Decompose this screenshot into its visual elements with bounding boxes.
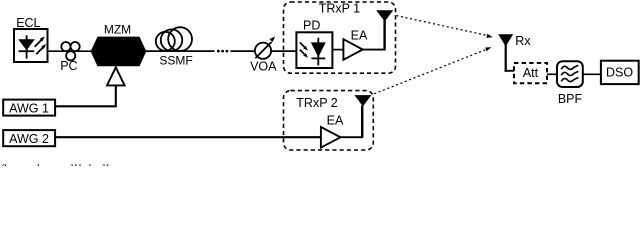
oscilloscope DSO box	[601, 61, 639, 84]
svg-text:TRxP 1: TRxP 1	[319, 2, 360, 16]
wireless dotted arrow TRxP2 to Rx	[374, 47, 491, 94]
svg-text:l: l	[78, 161, 82, 166]
AWG 2 box	[3, 130, 55, 146]
filter BPF waves	[561, 65, 578, 81]
svg-text:BPF: BPF	[558, 92, 583, 106]
remote unit TRxP 1 dashed box	[284, 2, 396, 73]
wireless dotted arrow TRxP1 to Rx	[396, 16, 492, 38]
caption fragment (cut off at bottom edge)	[0, 161, 110, 176]
svg-text:l: l	[37, 161, 41, 166]
fiber spool SSMF	[156, 27, 192, 51]
svg-text:ll: ll	[102, 161, 110, 166]
svg-text:Rx: Rx	[515, 34, 531, 48]
wire VOA to PD	[269, 50, 297, 52]
laser source ECL box	[14, 29, 48, 62]
svg-text:d: d	[85, 161, 92, 166]
svg-text:DSO: DSO	[606, 66, 633, 80]
wire PD to EA1	[332, 49, 344, 51]
antenna TRxP1	[376, 10, 393, 21]
wire MZM to TRxP1 with break	[146, 50, 215, 52]
svg-text:SSMF: SSMF	[159, 54, 192, 68]
wire BPF to DSO	[583, 73, 602, 75]
modulator MZM hexagon	[91, 37, 146, 66]
svg-text:EA: EA	[351, 29, 368, 43]
polarization controller PC loops	[61, 42, 79, 60]
attenuator VOA	[255, 36, 275, 58]
wire AWG1 to driver amplifier	[56, 85, 116, 106]
svg-text:AWG 1: AWG 1	[9, 102, 49, 116]
filter BPF box	[557, 61, 583, 87]
svg-text:EA: EA	[327, 113, 344, 127]
attenuator Att dashed box	[514, 63, 547, 83]
wire EA2 to antenna 2	[341, 136, 364, 138]
svg-text:TRxP 2: TRxP 2	[296, 96, 337, 110]
wire ECL to MZM through PC	[48, 50, 93, 52]
wire dots to VOA	[231, 50, 257, 52]
svg-text:ll: ll	[70, 161, 78, 166]
driver amplifier under MZM	[107, 67, 125, 85]
antenna Rx	[498, 34, 513, 46]
svg-text:l: l	[4, 161, 8, 166]
amplifier EA1 triangle	[343, 39, 362, 60]
AWG 1 box	[3, 100, 55, 116]
svg-text:PC: PC	[60, 59, 77, 73]
svg-text:PD: PD	[303, 19, 320, 33]
svg-text:VOA: VOA	[250, 59, 277, 73]
svg-text:Att: Att	[523, 66, 539, 80]
wire Att to BPF	[547, 73, 558, 75]
remote unit TRxP 2 dashed box	[284, 91, 374, 150]
svg-text:ECL: ECL	[16, 16, 40, 30]
photodiode symbol inside PD	[300, 38, 326, 66]
photodiode PD box	[296, 32, 332, 68]
amplifier EA2 triangle	[321, 127, 341, 148]
antenna TRxP2	[354, 95, 371, 106]
wire Rx antenna down to Att	[505, 45, 507, 72]
wire AWG2 to EA in TRxP2	[56, 136, 322, 138]
fiber continuation dots	[217, 50, 228, 53]
svg-text:AWG 2: AWG 2	[9, 132, 49, 146]
svg-text:MZM: MZM	[104, 22, 131, 36]
wire EA1 to antenna 1	[363, 49, 386, 51]
laser diode symbol inside ECL	[18, 35, 46, 58]
